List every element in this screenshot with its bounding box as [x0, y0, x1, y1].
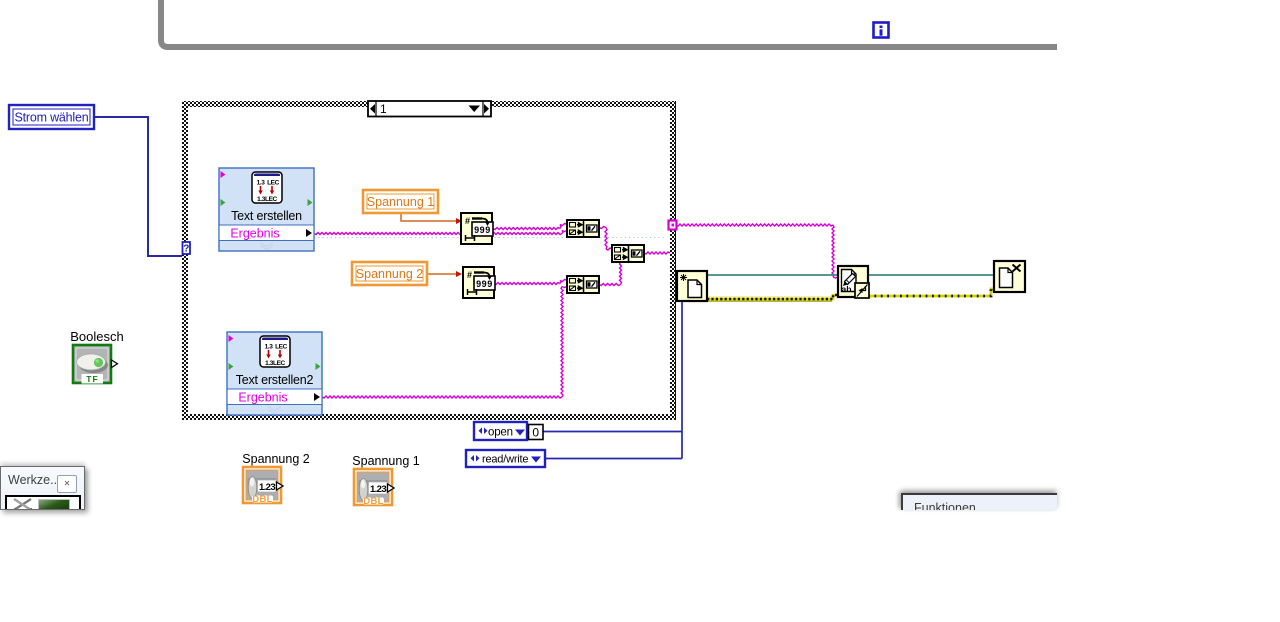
wire: conv1 to concat1: [493, 228, 560, 230]
svg-text:Ergebnis: Ergebnis: [230, 227, 279, 241]
svg-text:0: 0: [532, 426, 539, 440]
wire: concat1 to concat3: [599, 227, 606, 229]
node write text file: [838, 266, 869, 298]
svg-text:?: ?: [183, 244, 189, 255]
svg-text:DBL: DBL: [252, 494, 272, 505]
case structure right border: [670, 101, 676, 420]
svg-text:1.3: 1.3: [265, 344, 274, 351]
wire: Ergebnis1 to concat1: [314, 233, 562, 235]
svg-text:999: 999: [474, 225, 491, 235]
tunnel string out: [669, 221, 677, 230]
numeric control Spannung 1: [352, 454, 419, 507]
case structure bottom border: [182, 414, 676, 420]
wire: Spannung2 to conv2: [427, 273, 456, 275]
wire: concat3 to tunnel: [644, 252, 670, 254]
svg-text:LEC: LEC: [275, 344, 288, 351]
svg-text:read/write: read/write: [482, 454, 528, 466]
dotted blue routing line: [314, 237, 667, 239]
tools palette window Werkzeuge: [0, 466, 85, 510]
express VI Text erstellen2: [227, 332, 322, 415]
label Spannung 1: [363, 190, 438, 213]
svg-text:1.3LEC: 1.3LEC: [265, 360, 285, 367]
wire: Spannung1 to conv1: [401, 213, 456, 221]
wire: concat2 to concat3: [599, 284, 621, 286]
numeric control Spannung 2: [242, 452, 309, 505]
ring constant read/write: [466, 450, 545, 467]
svg-text:ab: ab: [842, 284, 852, 294]
svg-text:999: 999: [476, 279, 493, 289]
svg-text:Spannung 2: Spannung 2: [356, 267, 423, 281]
node number-to-string 1: [461, 213, 493, 244]
svg-text:Spannung 2: Spannung 2: [242, 452, 309, 466]
svg-text:#: #: [465, 216, 470, 226]
svg-text:1.3LEC: 1.3LEC: [257, 196, 277, 203]
svg-text:Ergebnis: Ergebnis: [238, 391, 287, 405]
case selector label: [368, 101, 491, 117]
node number-to-string 2: [463, 267, 495, 298]
svg-text:LEC: LEC: [267, 180, 280, 187]
svg-text:DBL: DBL: [363, 496, 383, 507]
node close file: [994, 261, 1025, 292]
svg-text:Text erstellen: Text erstellen: [231, 209, 302, 223]
svg-text:open: open: [488, 427, 513, 439]
node concatenate strings 1: [567, 220, 599, 237]
label Spannung 2: [352, 262, 427, 285]
functions palette window Funktionen: [901, 493, 1057, 510]
svg-text:Spannung 1: Spannung 1: [367, 195, 434, 209]
wire: Ergebnis2 to concat2: [322, 396, 562, 398]
wire: ring open/0 to open node: [543, 431, 682, 433]
wire: refnum write to close: [868, 274, 994, 276]
node open/create file: [677, 271, 707, 301]
wire: refnum open to write: [707, 274, 838, 276]
wire: tunnel to write node: [676, 224, 833, 226]
case structure top border: [182, 101, 676, 107]
boolean control Boolesch: [70, 329, 123, 384]
wire: ring read/write to open node: [545, 458, 682, 460]
ring constant open: [474, 422, 527, 440]
svg-text:Spannung 1: Spannung 1: [352, 454, 419, 468]
svg-text:1.3: 1.3: [257, 180, 266, 187]
tunnel ? selector terminal: [183, 242, 191, 255]
wire: conv2 to concat2: [494, 283, 560, 285]
subVI i icon: [874, 23, 889, 38]
control label Strom waehlen: [9, 105, 94, 129]
constant 0: [529, 425, 544, 440]
wire: vertical to open node bottom: [681, 301, 683, 459]
case structure left border: [182, 101, 188, 420]
express VI Text erstellen: [219, 168, 314, 251]
wire: error open to write: [708, 296, 831, 298]
svg-text:TF: TF: [86, 374, 98, 384]
wire: Strom waehlen to case selector: [94, 117, 183, 256]
node concatenate strings 3: [612, 245, 644, 262]
node concatenate strings 2: [567, 276, 599, 293]
window frame corner (front panel edge): [161, 0, 1057, 47]
svg-text:1.23: 1.23: [259, 482, 275, 493]
svg-text:#: #: [467, 270, 472, 280]
svg-text:1.23: 1.23: [370, 484, 386, 495]
svg-text:Boolesch: Boolesch: [70, 329, 123, 344]
svg-text:Text erstellen2: Text erstellen2: [236, 373, 314, 387]
